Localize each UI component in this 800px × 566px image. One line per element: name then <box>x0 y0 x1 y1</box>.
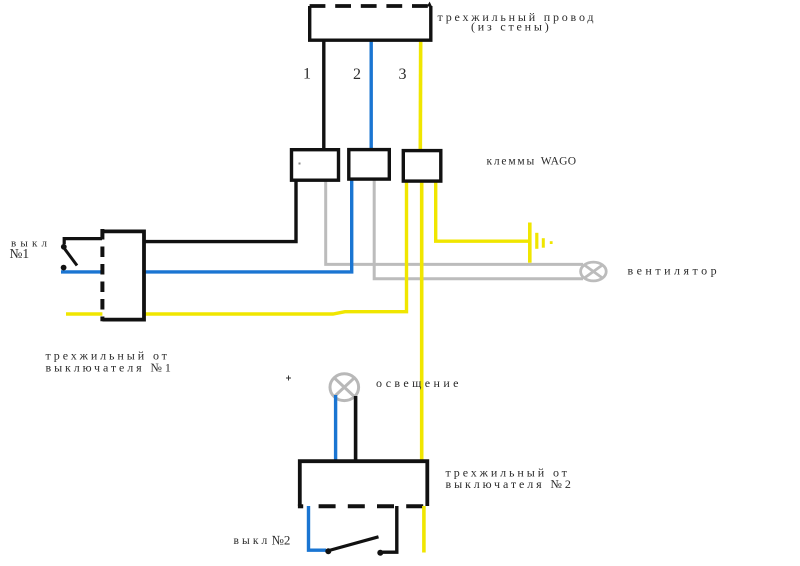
wire blue switch box 2 to SW2 <box>309 506 327 550</box>
svg-text:(из стены): (из стены) <box>471 20 552 34</box>
wire blue lamp to switch box 2 <box>334 395 337 463</box>
lamp (circle with X) <box>330 374 359 401</box>
wire yellow WAGO3 to lamp box (long vertical) <box>420 180 424 463</box>
wire black WAGO1 to switch box 1 <box>144 178 296 242</box>
fan M1 (motor circle with X) <box>581 262 607 281</box>
wire blue WAGO2 to switch box 1 <box>61 178 352 272</box>
WAGO clamp 3 <box>403 151 441 182</box>
WAGO clamp 1 <box>292 150 339 181</box>
wire black lamp to switch box 2 <box>354 396 358 463</box>
svg-text:№2: №2 <box>272 533 291 548</box>
svg-text:выключателя №2: выключателя №2 <box>446 477 574 491</box>
svg-text:выключателя №1: выключателя №1 <box>46 361 174 375</box>
svg-text:1: 1 <box>303 66 311 83</box>
junction box J1 (wall cable box, dashed top) <box>310 2 432 41</box>
wire 3 (yellow, from wall cable to WAGO 3) <box>418 36 422 152</box>
switch SW1 (выкл №1) <box>61 239 102 271</box>
svg-text:клеммы WAGO: клеммы WAGO <box>487 156 577 168</box>
stray plus mark <box>286 376 291 381</box>
wire yellow WAGO3 to fan ground symbol <box>436 180 529 241</box>
WAGO clamp 2 <box>349 150 390 180</box>
switch box 2 (dashed bottom edge) <box>298 461 427 506</box>
wire gray WAGO2 to fan (lower) <box>374 178 583 279</box>
wire 2 (blue, from wall cable to WAGO 2) <box>370 36 373 152</box>
switch box 1 (dashed left edge) <box>102 229 144 321</box>
dot inside WAGO 1 <box>299 163 301 165</box>
ground symbol (yellow, rotated) <box>528 223 553 263</box>
svg-text:вентилятор: вентилятор <box>628 264 721 278</box>
wire gray WAGO1 to fan (upper) <box>326 178 583 264</box>
svg-text:выкл: выкл <box>234 535 271 547</box>
wire yellow WAGO3 to switch box 1 <box>66 180 407 314</box>
svg-text:освещение: освещение <box>376 376 462 390</box>
wire yellow below switch box 2 <box>422 506 426 553</box>
svg-text:2: 2 <box>353 66 361 83</box>
switch SW2 (выкл №2) <box>325 506 397 556</box>
svg-text:3: 3 <box>399 66 407 83</box>
wire 1 (black, from wall cable to WAGO 1) <box>322 36 325 152</box>
svg-text:№1: №1 <box>10 246 30 261</box>
